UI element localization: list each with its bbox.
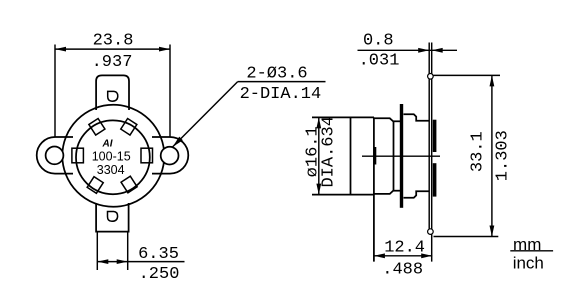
svg-text:6.35: 6.35 <box>138 245 179 264</box>
plate small circle top <box>428 74 434 80</box>
flange band (black bar) <box>400 104 403 208</box>
dimension 33.1 line <box>491 75 493 236</box>
ear hole left <box>46 147 64 165</box>
svg-text:.250: .250 <box>139 265 180 284</box>
cap top edge + dia extension line <box>312 116 374 118</box>
svg-text:.937: .937 <box>92 53 133 72</box>
insulator notch squares on inner circle <box>72 119 153 194</box>
arrowheads phi16.1 <box>316 117 321 128</box>
ring section with chamfers <box>374 118 394 194</box>
terminal tab top <box>96 75 129 110</box>
cap bottom edge + dia extension line <box>312 194 374 196</box>
dimension 33.1 extension lines <box>434 75 501 236</box>
leader line to ear hole <box>173 82 238 147</box>
centerline horizontal <box>362 155 440 157</box>
mm/inch separator line <box>510 250 553 252</box>
dimension 23.8/.937 extension lines <box>55 45 170 137</box>
cap right edge + 12.4 extension line <box>373 117 375 261</box>
svg-text:1.303: 1.303 <box>494 130 513 181</box>
svg-text:.488: .488 <box>382 261 423 280</box>
svg-text:AI: AI <box>102 139 113 150</box>
svg-text:DIA.634: DIA.634 <box>320 116 339 187</box>
mounting plate left line <box>428 43 430 234</box>
rivet bar lower right of plate <box>433 163 437 196</box>
arrowheads 12.4 <box>374 253 385 258</box>
svg-text:.031: .031 <box>359 52 400 71</box>
bottom ledge to band <box>394 190 402 192</box>
dimension 0.8/.031 line <box>358 49 458 51</box>
svg-text:mm: mm <box>513 235 541 254</box>
inner cover circle <box>76 120 150 194</box>
svg-text:2-DIA.14: 2-DIA.14 <box>240 85 322 104</box>
terminal tab bottom <box>96 203 129 232</box>
top ledge to band <box>394 120 402 122</box>
dimension phi16.1 dimension line <box>318 117 320 194</box>
arrowheads 33.1 <box>490 75 495 86</box>
plate small circle bottom <box>428 229 434 235</box>
leader underline <box>238 81 326 83</box>
mounting ear left lobe <box>37 137 73 174</box>
mounting plate right line <box>431 43 433 262</box>
outer case circle <box>62 105 164 207</box>
svg-text:2-Ø3.6: 2-Ø3.6 <box>246 65 307 84</box>
dimension 23.8/.937 dimension line <box>55 48 170 50</box>
svg-text:33.1: 33.1 <box>468 131 487 172</box>
arrowheads 23.8 <box>55 47 66 52</box>
svg-text:23.8: 23.8 <box>93 32 134 51</box>
ear hole right <box>161 147 179 165</box>
right section top with chamfer <box>404 114 429 121</box>
dimension 6.35/.250 dimension line <box>97 261 184 263</box>
centerline tick <box>374 147 377 165</box>
D-hole in bottom tab <box>108 212 118 222</box>
arrowheads 0.8 <box>418 48 429 53</box>
terminal extension lines below bottom tab <box>97 232 127 270</box>
svg-text:3304: 3304 <box>97 163 125 177</box>
dimension 12.4 line <box>374 255 432 257</box>
mounting ear right lobe <box>152 137 188 174</box>
svg-text:0.8: 0.8 <box>363 32 394 51</box>
svg-text:100-15: 100-15 <box>92 149 131 163</box>
D-hole in top tab <box>108 91 118 101</box>
svg-text:12.4: 12.4 <box>384 239 425 258</box>
leader arrowhead <box>173 137 183 147</box>
rivet bar upper right of plate <box>433 120 437 152</box>
right section bottom with chamfer <box>404 191 429 198</box>
arrowheads 6.35 <box>97 259 108 264</box>
cap left edge <box>350 117 352 194</box>
svg-text:inch: inch <box>513 254 544 273</box>
